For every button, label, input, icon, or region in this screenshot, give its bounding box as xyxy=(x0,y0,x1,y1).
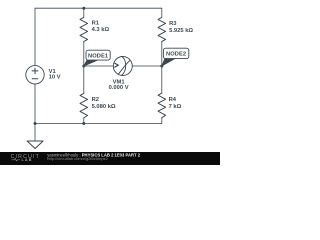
wire top rail xyxy=(35,7,162,9)
wire ground stub xyxy=(34,124,36,142)
resistor R2 xyxy=(80,93,88,118)
junction dot bottom middle xyxy=(82,122,85,125)
svg-text:R1: R1 xyxy=(92,20,100,26)
svg-text:NODE1: NODE1 xyxy=(88,53,108,59)
wire R4 to bottom rail xyxy=(161,118,163,124)
node NODE2 flag pointer xyxy=(162,59,175,66)
svg-text:10 V: 10 V xyxy=(49,74,61,80)
node NODE1 flag pointer xyxy=(84,60,98,66)
node NODE1 junction dot xyxy=(82,65,85,68)
node NODE2 junction dot xyxy=(160,65,163,68)
wire left branch lower xyxy=(34,84,36,124)
svg-text:NODE2: NODE2 xyxy=(166,51,186,57)
svg-text:0.000 V: 0.000 V xyxy=(109,85,129,91)
node NODE2 flag box xyxy=(163,48,188,58)
svg-text:R2: R2 xyxy=(92,97,99,103)
footer CircuitLab logo xyxy=(11,154,40,162)
svg-text:4.3 kΩ: 4.3 kΩ xyxy=(92,27,110,33)
wire middle branch top stub xyxy=(83,8,85,17)
wire right branch top stub xyxy=(161,8,163,17)
voltage source V1 xyxy=(26,66,44,84)
svg-text:5.080 kΩ: 5.080 kΩ xyxy=(92,104,116,110)
wire bottom rail xyxy=(35,123,162,125)
svg-text:7 kΩ: 7 kΩ xyxy=(169,104,182,110)
junction dot top middle xyxy=(82,7,85,10)
resistor R1 xyxy=(80,17,88,41)
wire node1 to R2 xyxy=(83,66,85,93)
resistor R3 xyxy=(158,17,166,41)
svg-text:R4: R4 xyxy=(169,97,177,103)
wire voltmeter to node2 xyxy=(132,65,162,67)
svg-text:5.925 kΩ: 5.925 kΩ xyxy=(169,28,193,34)
ground xyxy=(27,141,43,149)
wire left branch upper xyxy=(34,8,36,65)
voltmeter VM1 xyxy=(113,57,132,76)
svg-text:http://circuitlab.com/c/g2t5z5: http://circuitlab.com/c/g2t5z5mps2 xyxy=(47,156,108,161)
wire R1 to node1 xyxy=(83,41,85,66)
wire node1 to voltmeter xyxy=(84,65,114,67)
footer bar xyxy=(0,152,220,165)
resistor R4 xyxy=(158,93,166,118)
svg-text:LAB: LAB xyxy=(22,158,33,162)
wire R3 to node2 xyxy=(161,41,163,66)
node NODE1 flag box xyxy=(86,50,110,60)
wire R2 to bottom rail xyxy=(83,118,85,124)
junction dot bottom left xyxy=(34,122,37,125)
wire node2 to R4 xyxy=(161,66,163,93)
svg-text:R3: R3 xyxy=(169,21,177,27)
